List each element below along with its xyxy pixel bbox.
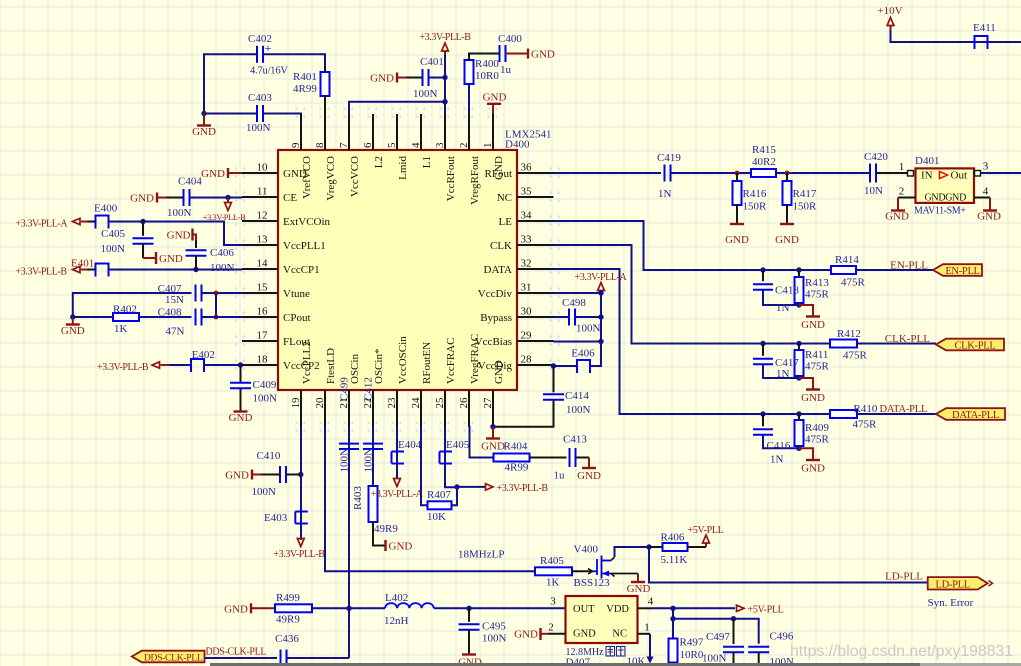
net label DATA-PLL [880,404,928,415]
junction R406 node [646,544,651,549]
wire R499 to L402 [312,607,385,609]
svg-text:E411: E411 [973,22,996,34]
svg-text:+10V: +10V [877,5,902,17]
resistor R414 [831,254,866,289]
capacitor C405 [101,222,154,256]
resistor R409 [795,414,830,448]
svg-text:EN-PLL: EN-PLL [890,260,928,272]
junction cap rail [670,616,675,621]
svg-text:49R9: 49R9 [276,614,300,626]
svg-text:LD-PLL: LD-PLL [885,571,923,583]
junction R409 top [796,411,801,416]
svg-text:26: 26 [458,397,470,409]
resistor R410 [830,403,878,431]
svg-text:C419: C419 [657,152,681,164]
svg-text:R497: R497 [680,637,704,649]
svg-text:+5V-PLL: +5V-PLL [688,525,724,536]
svg-text:R401: R401 [293,71,317,83]
wire EN row middle [763,269,831,271]
svg-text:VccVCO: VccVCO [349,156,361,197]
svg-text:R407: R407 [427,489,451,501]
capacitor C419 [657,152,681,200]
ground at C495 [458,630,482,666]
wire to pin 7 [349,102,445,114]
ground at R411 [799,378,825,404]
svg-text:13: 13 [257,234,269,246]
svg-text:R416: R416 [743,188,767,200]
junction pin31 [598,290,603,295]
pin 29 VccBias (right) [475,330,554,349]
junction +3.3V-PLL-B node [454,484,459,489]
resistor R416 [733,173,768,223]
port flag DDS-CLK-PLL [132,651,205,664]
svg-text:+: + [265,41,272,55]
wire pin24 to R407 [421,426,428,505]
resistor R411 [795,344,830,379]
svg-text:L2: L2 [373,156,385,168]
junction C410 [298,472,303,477]
svg-text:4: 4 [983,186,989,198]
junction C497 top [731,616,736,621]
svg-text:100N: 100N [101,243,126,255]
svg-text:VccCP2: VccCP2 [283,360,320,372]
pin 27 GND (bottom) [482,360,505,426]
svg-text:100N: 100N [482,633,507,645]
svg-text:1N: 1N [658,188,672,200]
capacitor C400 [498,33,522,76]
svg-text:1N: 1N [776,368,790,380]
svg-text:100N: 100N [413,88,438,100]
svg-text:GNDGND: GNDGND [925,193,967,204]
wire E402 to pin 18 [204,364,242,366]
svg-text:E402: E402 [192,349,215,361]
wire LE to EN row [554,221,764,270]
svg-text:GND: GND [573,629,596,640]
pin 8 VregVCO (top) [314,114,337,201]
wire pin28 stub link [553,365,555,366]
text 18MHzLP [458,549,504,561]
pin 25 VccFRAC (bottom) [434,338,457,426]
svg-text:28: 28 [521,354,533,366]
svg-text:GND: GND [725,234,749,246]
wire C403 left [204,113,257,115]
wire C400 right to GND [506,49,555,61]
wire R412 to flag [857,343,936,345]
capacitor C402 [248,33,288,77]
svg-text:49R9: 49R9 [374,523,398,535]
pin 15 Vtune (left) [242,282,310,301]
svg-text:9: 9 [290,142,302,148]
junction C416 top [760,411,765,416]
svg-text:100N: 100N [252,486,277,498]
svg-text:475R: 475R [805,361,830,373]
pin 5 Lmid (top) [386,114,409,180]
svg-text:36: 36 [521,162,533,174]
net label DDS-CLK-PLL [206,647,267,658]
svg-text:OUT: OUT [573,604,595,615]
svg-text:1N: 1N [776,302,790,314]
port flag LD-PLL [928,577,993,590]
wire C414 to pin27 node [493,400,554,427]
resistor R404 [470,426,530,474]
wire cap rail [673,619,759,644]
capacitor C418 [753,270,799,314]
svg-text:10R0: 10R0 [475,70,499,82]
svg-text:15N: 15N [165,294,184,306]
pin 16 CPout (left) [242,306,311,325]
wire DATA row middle [763,413,830,415]
net label LD-PLL [885,571,923,583]
wire R402 left [73,316,113,318]
wire rail down to E406 row [590,342,601,367]
wire C436 to pin21 line [287,657,350,659]
svg-text:+3.3V-PLL-B: +3.3V-PLL-B [97,362,149,373]
svg-text:DDS-CLK-PLL: DDS-CLK-PLL [144,653,203,664]
svg-text:C414: C414 [565,390,589,402]
resistor R412 [830,328,868,362]
capacitor C417 [753,344,799,381]
svg-text:R405: R405 [540,555,564,567]
svg-text:R499: R499 [276,592,300,604]
wire R405 to gate [572,570,597,572]
ground at C413 [576,458,601,483]
pin 1 GND (top) [482,114,505,180]
svg-text:25: 25 [434,397,446,409]
capacitor C412 [363,377,384,472]
junction pin29 [598,339,603,344]
ferrite bead E401 [71,258,109,277]
svg-text:C420: C420 [864,151,888,163]
ground at C409 [229,388,253,424]
svg-text:475R: 475R [805,434,830,446]
svg-text:35: 35 [521,186,533,198]
power port +3.3V-PLL-B (pin19) [273,539,325,561]
junction R402 left [70,314,75,319]
svg-text:11: 11 [257,186,268,198]
svg-text:1u: 1u [500,64,512,76]
wire D407 pin1 arrow [638,622,654,664]
wire C420 to D401 pin1 [876,161,914,176]
ground at R416 [725,224,749,246]
svg-text:475R: 475R [805,289,830,301]
pin 20 FtestLD (bottom) [314,348,337,426]
svg-text:C409: C409 [253,379,277,391]
pin 22 OSCin* (bottom) [362,349,385,426]
wire C498 right [575,316,601,318]
capacitor C406 [186,240,235,274]
svg-text:GND: GND [977,211,1001,223]
wire flag to C436 [205,657,278,659]
wire R415 to C420 [776,172,870,174]
power port +3.3V-PLL-B (pin11 tap) [203,198,247,223]
junction CLK gnd node [796,375,801,380]
svg-text:R414: R414 [835,254,859,266]
amplifier D401 MAV11-SM+ body [914,155,974,217]
pin 11 CE (left) [242,186,297,205]
svg-text:GND: GND [885,211,909,223]
op-amp U D400 LMX2541 body [278,129,551,391]
svg-text:6: 6 [362,142,374,148]
pin 35 NC (right) [497,186,554,205]
svg-text:GND: GND [627,583,651,595]
svg-text:+3.3V-PLL-B: +3.3V-PLL-B [273,549,325,560]
port flag DATA-PLL [936,408,1005,421]
wire pin22 down [372,426,374,486]
wire LD-PLL [649,547,928,583]
svg-text:100N: 100N [566,404,591,416]
capacitor C404 [167,176,202,220]
wire pin19 down [300,426,302,540]
wire R407 right up [452,487,458,506]
svg-text:R413: R413 [805,277,829,289]
svg-text:GND: GND [283,168,307,180]
svg-text:100N: 100N [167,207,192,219]
svg-text:150R: 150R [793,201,818,213]
svg-text:E403: E403 [264,512,288,524]
svg-text:VDD: VDD [606,604,629,615]
inductor E411 ferrite [973,22,996,49]
svg-text:4R99: 4R99 [293,83,317,95]
svg-text:+3.3V-PLL-B: +3.3V-PLL-B [497,483,549,494]
pin 24 RFoutEN (bottom) [410,342,433,426]
svg-text:C495: C495 [482,621,506,633]
svg-text:40R2: 40R2 [752,156,776,168]
pin 18 VccCP2 (left) [242,354,320,373]
resistor R401 [293,66,330,114]
svg-text:GND: GND [61,325,85,337]
junction C495 [466,606,471,611]
wire CLK to CLK row [554,245,764,344]
svg-text:15: 15 [257,282,269,294]
svg-text:VccFRAC: VccFRAC [445,338,457,384]
svg-text:7: 7 [338,142,350,148]
svg-text:D401: D401 [915,155,939,167]
svg-text:100N: 100N [253,393,278,405]
net label EN-PLL [890,260,928,272]
capacitor C414 [543,366,591,416]
svg-text:R417: R417 [793,188,817,200]
ground at R409 [799,448,825,474]
svg-text:4: 4 [648,596,654,608]
power port +3.3V-PLL-B (right) [457,483,548,494]
scrollbar [210,663,1021,666]
svg-text:1: 1 [644,622,650,634]
svg-text:VccDig: VccDig [478,360,513,372]
junction at C403/GND [201,111,206,116]
pin 6 L2 (top) [362,114,385,168]
wire C416 bottom [763,435,799,449]
svg-text:1K: 1K [114,323,128,335]
svg-text:100N: 100N [702,653,727,665]
svg-text:1: 1 [482,143,494,149]
junction C406 bottom [193,267,198,272]
svg-text:C408: C408 [158,307,182,319]
svg-text:E406: E406 [571,348,595,360]
wire C403 right to pin 9 [263,113,301,116]
pin 14 VccCP1 (left) [242,258,320,277]
resistor R497 [669,637,704,666]
junction pin21 rail [346,606,351,611]
power port +3.3V-PLL-A (rail) [575,272,628,293]
capacitor C407 [158,283,202,306]
svg-text:475R: 475R [843,350,868,362]
wire loop tie [215,293,217,317]
wire pin25 down [445,426,457,487]
pin 10 GND (left) [242,162,307,181]
svg-text:C413: C413 [563,434,587,446]
wire pin21 down [348,426,350,658]
resistor R403 [352,486,398,535]
svg-text:3: 3 [434,142,446,148]
pin 3 VccRFout (top) [434,114,457,201]
svg-text:CPout: CPout [283,312,311,324]
svg-text:R412: R412 [837,328,861,340]
svg-text:VccRFout: VccRFout [445,156,457,201]
svg-text:30: 30 [521,306,533,318]
svg-text:GND: GND [801,463,825,475]
pin hotspot marks [235,108,560,432]
wire C419 to R415 [671,172,752,174]
svg-text:4: 4 [410,142,422,148]
wire E401 to pin 14 [109,269,243,271]
oscillator D407 body [566,596,638,666]
svg-text:R415: R415 [752,144,776,156]
svg-text:LE: LE [499,216,513,228]
capacitor C403 [246,92,272,134]
capacitor C410 [252,450,287,498]
svg-text:29: 29 [521,330,533,342]
svg-text:C496: C496 [770,631,794,643]
pin 12 ExtVCOin (left) [242,210,331,229]
power port +5V-PLL (D407) [673,605,784,616]
svg-text:D400: D400 [505,139,530,151]
resistor R415 [751,144,776,177]
svg-text:1: 1 [899,161,905,173]
power port +5V-PLL (R406) [688,525,724,547]
svg-text:Out: Out [951,170,968,182]
pin 19 VccPLL2 (bottom) [290,341,313,426]
svg-text:100N: 100N [246,122,271,134]
capacitor C496 [748,631,794,666]
capacitor C409 [230,365,277,405]
ground at R417 [775,224,799,246]
wire R410 to flag [857,413,936,415]
svg-text:OSCin*: OSCin* [373,349,385,384]
ground at C403 [192,114,216,139]
junction EN gnd node [796,302,801,307]
svg-text:18: 18 [257,354,269,366]
junction R413 top [796,267,801,272]
svg-text:R406: R406 [661,532,685,544]
svg-text:GND: GND [370,73,394,85]
svg-text:VccBias: VccBias [475,336,512,348]
svg-text:E405: E405 [446,439,470,451]
svg-text:100N: 100N [576,323,601,335]
pin 36 RFout (right) [484,162,553,181]
svg-text:NC: NC [497,192,512,204]
svg-text:GND: GND [159,253,183,265]
ground at pin 10 [201,168,242,180]
wire pin23 down [396,426,398,479]
junction C417 top [760,341,765,346]
ground at C406 [167,229,196,242]
wire +3.3V-PLL-B down to pin 3 [444,55,446,114]
svg-text:GND: GND [514,629,538,641]
junction C401 node [442,75,447,80]
capacitor C498 [562,297,601,335]
wire port to E400 [81,221,96,223]
svg-text:C404: C404 [178,176,202,188]
svg-text:C403: C403 [248,92,272,104]
pin 17 FLout (left) [242,330,310,349]
junction R416 top [735,171,740,176]
svg-text:GND: GND [192,126,216,138]
svg-text:VregVCO: VregVCO [325,156,337,201]
svg-text:Vtune: Vtune [283,288,310,300]
svg-text:GND: GND [167,230,191,242]
svg-text:12nH: 12nH [384,615,409,627]
svg-text:5.11K: 5.11K [661,554,688,566]
ferrite bead E403 [264,512,308,525]
junction C418 top [760,267,765,272]
svg-text:31: 31 [521,282,532,294]
wire C417 bottom [763,364,799,378]
wire R400 top to C400 [469,54,500,61]
svg-text:LD-PLL: LD-PLL [936,579,970,590]
resistor R413 [795,270,830,305]
svg-text:2: 2 [458,143,470,149]
svg-text:C499: C499 [339,377,351,401]
svg-text:5: 5 [386,142,398,148]
ground at C405 [143,244,183,265]
wire CLK row middle [763,343,830,345]
svg-text:1u: 1u [554,470,566,482]
capacitor C420 [864,151,888,197]
ground at pin 27 [481,427,505,453]
svg-text:L1: L1 [421,156,433,168]
svg-text:20: 20 [314,397,326,409]
resistor R405 [535,555,572,589]
svg-text:24: 24 [410,397,422,409]
pin 4 L1 (top) [410,114,433,168]
svg-text:Syn. Error: Syn. Error [928,597,974,609]
svg-text:10N: 10N [864,185,883,197]
svg-text:150R: 150R [743,201,768,213]
svg-text:R402: R402 [113,304,137,316]
svg-text:C401: C401 [420,56,444,68]
svg-text:CE: CE [283,192,297,204]
wire pin4 down [672,608,674,638]
svg-text:https://blog.csdn.net/pxy19883: https://blog.csdn.net/pxy198831 [790,643,1013,660]
svg-text:GND: GND [225,470,249,482]
ground at R402 [61,317,85,337]
svg-text:GND: GND [389,541,413,553]
wire D401 pin2 to GND [885,186,915,223]
capacitor C413 [530,434,588,482]
svg-text:C406: C406 [210,247,234,259]
ground at C410 [225,470,280,482]
svg-text:19: 19 [290,397,302,409]
svg-text:27: 27 [482,397,494,409]
ground at C404 [130,193,183,205]
svg-text:Bypass: Bypass [480,312,512,324]
wire +10V rail [891,30,1021,42]
svg-text:475R: 475R [841,277,866,289]
svg-text:C412: C412 [363,377,375,401]
svg-text:17: 17 [257,330,269,342]
junction pin7 node [442,99,447,104]
svg-text:4R99: 4R99 [505,462,529,474]
